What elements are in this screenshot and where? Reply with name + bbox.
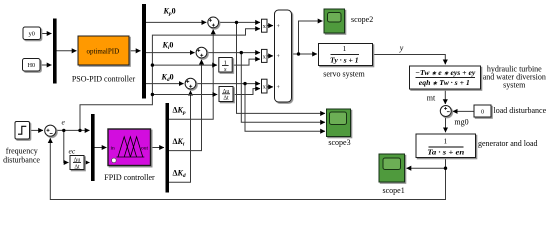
svg-text:Ki0: Ki0 <box>162 41 174 52</box>
svg-text:in: in <box>111 146 116 152</box>
svg-text:1: 1 <box>343 44 347 53</box>
svg-text:frequency: frequency <box>6 146 38 155</box>
svg-text:out: out <box>141 146 149 152</box>
svg-text:y: y <box>399 44 404 53</box>
svg-text:Δt: Δt <box>223 96 229 102</box>
svg-text:Ta · s + en: Ta · s + en <box>427 147 464 156</box>
svg-text:scope1: scope1 <box>382 186 404 195</box>
svg-text:scope2: scope2 <box>351 15 373 24</box>
svg-text:generator and load: generator and load <box>478 139 538 148</box>
svg-text:system: system <box>503 80 526 89</box>
svg-text:ec: ec <box>69 146 76 155</box>
svg-text:ΔKi: ΔKi <box>173 137 185 148</box>
svg-text:PSO-PID controller: PSO-PID controller <box>72 75 136 84</box>
svg-text:Δt: Δt <box>74 164 80 170</box>
svg-text:Ty · s + 1: Ty · s + 1 <box>330 55 359 64</box>
svg-text:ΔKd: ΔKd <box>173 169 186 180</box>
svg-text:mt: mt <box>427 94 436 103</box>
svg-text:e: e <box>62 118 66 127</box>
svg-text:scope3: scope3 <box>328 138 350 147</box>
svg-text:Kp0: Kp0 <box>163 7 176 18</box>
svg-text:load disturbance: load disturbance <box>494 106 547 115</box>
svg-text:FPID controller: FPID controller <box>104 173 155 182</box>
svg-text:disturbance: disturbance <box>3 155 40 164</box>
svg-text:mg0: mg0 <box>454 118 468 127</box>
svg-text:H0: H0 <box>27 62 35 69</box>
svg-text:ΔKp: ΔKp <box>173 106 186 117</box>
svg-text:Kd0: Kd0 <box>161 73 174 84</box>
svg-text:servo system: servo system <box>323 69 365 78</box>
svg-text:y0: y0 <box>29 31 35 38</box>
svg-text:eqh ∗ Tw · s + 1: eqh ∗ Tw · s + 1 <box>419 78 470 87</box>
svg-text:0: 0 <box>481 108 484 115</box>
svg-text:optimalPID: optimalPID <box>86 48 119 56</box>
svg-text:1: 1 <box>444 136 448 145</box>
